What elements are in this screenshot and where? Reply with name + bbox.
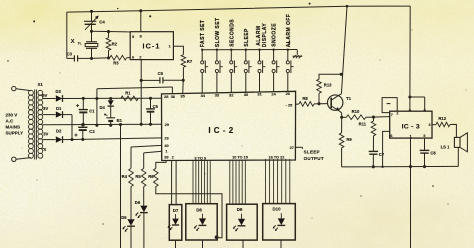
svg-text:3: 3 (429, 123, 431, 127)
wire bottom rail (342, 165, 459, 168)
wire (314, 103, 327, 105)
svg-text:D7: D7 (173, 208, 179, 213)
capacitor C7 (369, 151, 378, 166)
wire 3V tap upper (43, 114, 56, 116)
wire pin5 line (92, 30, 131, 33)
svg-text:C1: C1 (89, 109, 95, 114)
capacitor C8 (420, 138, 430, 167)
svg-text:IC - 3: IC - 3 (402, 123, 420, 130)
label D1 (56, 106, 62, 111)
transistor T1 (328, 94, 343, 118)
svg-text:R3: R3 (113, 61, 119, 66)
label D6 (135, 200, 141, 205)
LED in D10 (273, 213, 286, 231)
resistor R4 (129, 168, 134, 186)
junction (408, 95, 411, 98)
junction (107, 56, 110, 59)
label R11 (359, 122, 367, 127)
svg-text:R4: R4 (122, 174, 128, 179)
pin 5 (132, 35, 134, 39)
svg-text:C2: C2 (89, 129, 95, 134)
junction (90, 10, 93, 13)
label 3 TO 9 (195, 156, 207, 160)
svg-text:5: 5 (132, 35, 134, 39)
label C4 (99, 19, 105, 24)
LED D5 (122, 187, 134, 248)
svg-text:SLEEP: SLEEP (304, 150, 320, 155)
svg-text:30: 30 (244, 92, 248, 97)
label B1 (117, 118, 123, 123)
LED in D8 (194, 214, 207, 231)
wire (242, 240, 244, 248)
svg-text:D6: D6 (135, 200, 141, 205)
pin 31 (257, 92, 262, 97)
pin 25 (286, 102, 294, 107)
junction (372, 116, 375, 119)
push-button switch S1 (201, 49, 208, 94)
label D2 (56, 128, 62, 133)
capacitor C4 variable (84, 11, 99, 31)
junction (82, 97, 85, 100)
svg-text:R5: R5 (135, 174, 141, 179)
pin 32 (229, 92, 234, 97)
svg-text:OUTPUT: OUTPUT (304, 156, 324, 161)
diode D3 (56, 95, 63, 102)
pin 26 (286, 91, 291, 96)
svg-text:IC-1: IC-1 (143, 42, 161, 51)
resistor R1 (121, 96, 138, 101)
label R9 (346, 137, 352, 142)
wire switch top rail (202, 49, 297, 51)
svg-text:C6: C6 (158, 71, 164, 76)
svg-text:SNOOZE: SNOOZE (272, 23, 278, 47)
svg-text:D2: D2 (56, 128, 62, 133)
svg-text:SLOW SET: SLOW SET (215, 17, 221, 47)
wire V+ riser (97, 87, 172, 99)
resistor R5 (141, 168, 146, 186)
label X tap (42, 147, 47, 152)
svg-text:ALARM OFF: ALARM OFF (286, 14, 292, 48)
pin 34 (201, 93, 206, 98)
label DISPLAY (262, 23, 268, 48)
svg-text:SECONDS: SECONDS (229, 19, 235, 47)
wire to IC-3 pin7 (374, 116, 390, 119)
svg-text:R7: R7 (187, 59, 193, 64)
svg-text:R8: R8 (302, 96, 308, 101)
pin 1 (165, 149, 168, 154)
svg-text:R2: R2 (112, 41, 118, 46)
resistor R9 (339, 117, 344, 167)
svg-text:X1: X1 (38, 82, 44, 87)
svg-text:7: 7 (391, 113, 393, 117)
label 3V lower (43, 131, 48, 136)
pin 3 label (429, 123, 431, 127)
label 9V (42, 93, 47, 98)
label R13 (324, 82, 332, 87)
svg-text:R1: R1 (125, 91, 131, 96)
svg-text:6: 6 (390, 134, 392, 138)
label SECONDS (229, 19, 235, 47)
junction (139, 9, 142, 12)
resistor R2 (106, 32, 111, 58)
diode D2 (56, 136, 63, 143)
wire (63, 97, 162, 99)
resistor R3 (110, 55, 127, 60)
label C7 (379, 152, 385, 157)
pin 36 (171, 94, 176, 99)
label R3 (113, 61, 119, 66)
wire (63, 115, 72, 140)
svg-text:SUPPLY: SUPPLY (6, 130, 24, 135)
label R2 (112, 41, 118, 46)
wire common line (43, 123, 162, 126)
label SNOOZE (272, 23, 278, 47)
wires pins 3 to 9 (193, 160, 210, 204)
svg-text:R6: R6 (148, 174, 154, 179)
label IC-1 (143, 42, 161, 51)
label R7 (187, 59, 193, 64)
wire pin25 to R8 (295, 103, 299, 105)
junction (81, 123, 84, 126)
crystal XTL (85, 31, 98, 58)
IC U3 body (390, 111, 432, 138)
svg-text:D9: D9 (237, 207, 243, 212)
junction (109, 97, 112, 100)
push-button switch S7 (286, 49, 293, 92)
pin 2 (139, 55, 141, 59)
svg-text:R9: R9 (346, 137, 352, 142)
svg-text:9V: 9V (42, 93, 47, 98)
label 230V A.C MAINS SUPPLY (6, 113, 24, 136)
wire common drop (120, 125, 122, 248)
svg-text:X: X (71, 39, 75, 45)
svg-text:C3: C3 (67, 52, 73, 57)
svg-text:- 25: - 25 (286, 102, 294, 107)
junction (119, 123, 122, 126)
pin 6 (132, 55, 134, 59)
wire left rail (66, 12, 68, 58)
label C5 (153, 104, 159, 109)
label IC-2 (208, 126, 233, 135)
svg-text:D5: D5 (121, 215, 127, 220)
svg-text:ALARM: ALARM (256, 25, 262, 45)
wire IC-1 pin8 (140, 11, 142, 32)
pin 33 (215, 93, 220, 98)
pin 39 (164, 155, 169, 160)
wire (16, 158, 31, 160)
junction base (317, 102, 320, 105)
svg-text:A.C: A.C (6, 119, 15, 124)
svg-text:1: 1 (410, 135, 412, 139)
display D9 (227, 204, 258, 240)
label SLEEP OUTPUT (304, 150, 324, 161)
junction (182, 79, 185, 82)
junction (70, 138, 73, 141)
label R10 (352, 109, 360, 114)
wire loop pins 7-2 (382, 98, 397, 113)
IC U2 body (162, 91, 296, 160)
label XTL (71, 39, 82, 45)
label C3 (67, 52, 73, 57)
wire IC-1 pin2 column (140, 60, 142, 125)
svg-text:R10: R10 (352, 109, 360, 114)
transformer X1 secondary winding (38, 90, 43, 158)
display D8 (186, 204, 217, 240)
label R6 (148, 174, 154, 179)
svg-text:TL: TL (78, 42, 82, 46)
op-amp IC-1 (130, 32, 173, 60)
svg-text:SLEEP: SLEEP (244, 28, 250, 47)
display D10 (263, 204, 296, 240)
svg-text:LS 1: LS 1 (441, 144, 451, 149)
wire IC-1 pin1 to R7 (173, 46, 183, 54)
label 3V upper (43, 106, 48, 111)
junction (149, 97, 152, 100)
svg-text:230 V: 230 V (6, 113, 18, 118)
svg-text:3V: 3V (43, 131, 48, 136)
svg-text:6: 6 (132, 55, 134, 59)
svg-text:40: 40 (164, 143, 168, 148)
wire pin39 to R6 (156, 160, 166, 168)
display D7 (169, 205, 182, 241)
resistor R12 (436, 122, 450, 127)
label D4 (100, 105, 106, 110)
junction (409, 165, 412, 168)
LED in D7 (168, 214, 180, 230)
wire collector riser (341, 6, 347, 94)
junction (140, 123, 143, 126)
label R8 (302, 96, 308, 101)
svg-text:C7: C7 (379, 152, 385, 157)
svg-text:D10: D10 (272, 207, 281, 212)
svg-text:5: 5 (423, 134, 425, 138)
wire top rail (67, 6, 410, 12)
resistor R13 (317, 74, 342, 103)
svg-text:16 TO 22: 16 TO 22 (269, 155, 285, 159)
label ALARM (256, 25, 262, 45)
pin 8 (140, 34, 142, 38)
junction (340, 73, 343, 76)
wire 3V tap lower (43, 139, 56, 141)
push-button switch S5 (258, 49, 265, 93)
junction (109, 124, 112, 127)
pin 7 label (391, 113, 393, 117)
junction (423, 165, 426, 168)
capacitor C6 (141, 77, 183, 83)
svg-text:R12: R12 (438, 116, 446, 121)
svg-text:X: X (44, 147, 47, 152)
label C6 (158, 71, 164, 76)
wire top riser IC-3 (410, 6, 425, 111)
svg-text:8: 8 (140, 34, 142, 38)
push-button switch S4 (244, 49, 251, 93)
push-button switch S2 (215, 49, 222, 94)
pin 27 (290, 145, 294, 150)
junction (372, 165, 375, 168)
svg-text:R11: R11 (359, 122, 367, 127)
svg-text:2: 2 (139, 55, 141, 59)
wire pin6 (383, 131, 390, 166)
wire 9V tap (43, 98, 56, 100)
label SLEEP (244, 28, 250, 47)
label SLOW SET (215, 17, 221, 47)
svg-text:D1: D1 (56, 106, 62, 111)
transformer X1 primary terminal top (12, 86, 16, 90)
pin 35 (180, 93, 185, 98)
junction (81, 138, 84, 141)
svg-text:10 TO 15: 10 TO 15 (232, 156, 248, 160)
resistor R7 (181, 55, 186, 81)
junction (107, 30, 110, 33)
label FAST SET (200, 20, 206, 48)
svg-text:D4: D4 (100, 105, 106, 110)
label LS1 (441, 144, 451, 149)
pin 2 label (172, 155, 175, 160)
svg-text:C5: C5 (153, 104, 159, 109)
pin 2 label (396, 112, 398, 116)
label T1 (346, 96, 352, 101)
wire pin40 to R4 (131, 145, 162, 168)
pin 23 (164, 136, 169, 141)
label D9 (237, 207, 243, 212)
pin stub blobs (409, 109, 426, 111)
svg-text:B1: B1 (117, 118, 123, 123)
wire R6 to D8 (156, 187, 222, 238)
svg-text:D3: D3 (56, 89, 62, 94)
wire to IC-2 pin 23 (63, 138, 162, 140)
resistor R8 (299, 102, 314, 107)
svg-text:MAINS: MAINS (6, 124, 21, 129)
transformer X1 primary winding (28, 90, 33, 158)
junction (381, 166, 383, 168)
label R12 (438, 116, 446, 121)
wire (92, 57, 110, 60)
pin 30 (244, 92, 248, 97)
wire pin2 to D7 (172, 160, 177, 204)
svg-text:R13: R13 (324, 82, 332, 87)
label R1 (125, 91, 131, 96)
label C2 (89, 129, 95, 134)
label D3 (56, 89, 62, 94)
svg-text:3 TO 9: 3 TO 9 (195, 156, 207, 160)
wire (127, 57, 131, 59)
junction emitter node (340, 116, 343, 119)
label 10 TO 15 (232, 156, 248, 160)
label R4 (122, 174, 128, 179)
junction (149, 123, 152, 126)
svg-text:3V: 3V (43, 106, 48, 111)
resistor R11 (371, 117, 376, 151)
battery B1 (106, 118, 115, 125)
capacitor C5 (146, 98, 155, 124)
speaker LS1 (454, 133, 467, 167)
wire pin27 (295, 147, 302, 149)
junction (90, 30, 93, 33)
wire (450, 124, 456, 137)
capacitor C1 (76, 98, 88, 124)
pin 28 (164, 94, 169, 99)
polarity mark (104, 113, 107, 116)
junction (346, 5, 349, 8)
wire (280, 240, 282, 248)
svg-text:FAST SET: FAST SET (200, 20, 206, 48)
svg-text:C4: C4 (99, 19, 105, 24)
label D8 (196, 207, 202, 212)
wire riser to common (96, 99, 98, 126)
svg-text:C8: C8 (430, 151, 436, 156)
label C8 (430, 151, 436, 156)
label D10 (272, 207, 281, 212)
wire (202, 240, 204, 248)
junction (90, 57, 93, 60)
push-button switch S6 (272, 49, 279, 93)
label D7 (173, 208, 179, 213)
pin 40 (164, 143, 168, 148)
capacitor C2 (75, 125, 88, 140)
label ALARM OFF (286, 14, 292, 48)
wire (175, 240, 177, 248)
push-button switch S3 (230, 49, 237, 93)
label X1 (38, 82, 44, 87)
LED D6 (135, 187, 148, 248)
wires pins 16 to 22 (266, 159, 290, 204)
wire (16, 89, 31, 91)
pin 1 (169, 45, 171, 49)
pin 29 (165, 122, 170, 127)
junction (95, 97, 98, 100)
junction (215, 235, 219, 239)
resistor R10 (342, 115, 374, 120)
diode D4 (108, 99, 114, 118)
transformer X1 core (35, 90, 37, 160)
transformer X1 primary terminal bottom (12, 157, 16, 161)
pin 1 label (410, 135, 412, 139)
capacitor C3 (67, 55, 92, 61)
label IC-3 (402, 123, 420, 130)
wire pin3 to R12 (432, 124, 436, 126)
label C1 (89, 109, 95, 114)
junction (140, 79, 143, 82)
label R5 (135, 174, 141, 179)
resistor R6 (154, 168, 159, 186)
svg-text:D8: D8 (196, 207, 202, 212)
pin 24 (271, 91, 276, 96)
svg-text:I C - 2: I C - 2 (208, 126, 233, 135)
pin 6 label (390, 134, 392, 138)
wire pin1 to R5 (144, 151, 162, 168)
diode D1 (56, 111, 63, 118)
wires pins 10 to 15 (230, 160, 246, 205)
svg-text:1: 1 (169, 45, 171, 49)
svg-text:DISPLAY: DISPLAY (262, 23, 268, 48)
label 16 TO 22 (269, 155, 285, 159)
svg-text:2: 2 (396, 112, 398, 116)
svg-text:27: 27 (290, 145, 294, 150)
wire pin1 long drop (410, 138, 412, 248)
LED in D9 (233, 214, 246, 232)
junction (82, 123, 85, 126)
svg-text:T1: T1 (346, 96, 352, 101)
pin 5 label (423, 134, 425, 138)
chassis ground (286, 41, 302, 58)
wire IC-2 pin 35 column (182, 80, 185, 94)
junction (95, 124, 98, 127)
label D5 (121, 215, 127, 220)
